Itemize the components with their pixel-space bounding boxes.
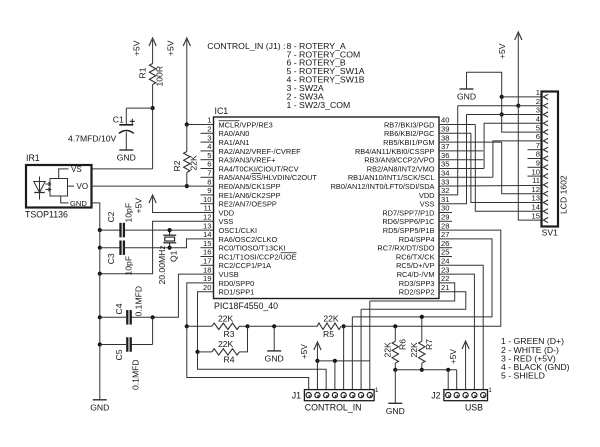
wire IC pin 28 RD5 to J1 row: [344, 230, 501, 326]
svg-text:RD7/SPP7/P1D: RD7/SPP7/P1D: [382, 208, 434, 217]
wire stub IC pin 9: [201, 194, 214, 196]
svg-text:C5: C5: [114, 349, 124, 360]
wire IC pin 34 RB1 to E col: [439, 176, 493, 178]
wire stub IC pin 6: [201, 168, 214, 170]
svg-text:14: 14: [203, 230, 211, 239]
svg-text:RA6/OSC2/CLKO: RA6/OSC2/CLKO: [219, 235, 278, 244]
svg-text:+5V: +5V: [132, 40, 142, 56]
svg-text:J2: J2: [431, 391, 440, 401]
svg-text:+5V: +5V: [300, 344, 309, 359]
wire GND col pin1 to pin3: [501, 97, 503, 115]
resistor R1: [149, 64, 155, 85]
svg-text:SV1: SV1: [542, 228, 558, 238]
svg-text:15: 15: [532, 211, 540, 220]
wire +5V row to VDD col: [458, 105, 519, 107]
resistor R5: [317, 323, 341, 329]
svg-text:VDD: VDD: [419, 191, 435, 200]
svg-text:1: 1: [375, 387, 379, 394]
svg-text:13: 13: [203, 221, 211, 230]
wire IC pin 21 RD2 to J1 pin2: [361, 292, 466, 310]
IC IC1 PIC18F4550_40 body: [214, 117, 440, 299]
wire J1 pin7 drop: [316, 361, 318, 390]
ground near LCD: [460, 88, 474, 90]
wire rail VSS tap to C4: [99, 274, 101, 318]
wire rail to C5: [100, 344, 128, 346]
wire C1 top lead: [125, 108, 127, 125]
wire C5 riser: [152, 317, 154, 344]
wire stub LCD pin 10: [528, 175, 542, 177]
svg-text:OSC1/CLKI: OSC1/CLKI: [219, 226, 258, 235]
wire C2 to crystal node: [124, 229, 170, 231]
wire R5 right lead: [343, 325, 346, 327]
node R3/R4 bus junction: [245, 324, 249, 328]
power +5V arrow (MCLR branch): [183, 38, 190, 46]
svg-text:33: 33: [441, 177, 449, 186]
svg-text:R1: R1: [138, 67, 148, 78]
wire stub LCD pin 8: [528, 158, 542, 160]
wire IC pin 35 RB2 to RS col: [439, 168, 484, 170]
wire IC pin 20 RD1 down to R4: [198, 292, 214, 352]
wire stub IC pin 29: [439, 220, 452, 222]
wire J2 pin5 drop: [447, 370, 449, 390]
svg-text:9: 9: [207, 186, 211, 195]
svg-text:C2: C2: [106, 211, 116, 222]
svg-text:CONTROL_IN: CONTROL_IN: [305, 403, 362, 413]
svg-text:TSOP1136: TSOP1136: [25, 210, 68, 220]
svg-text:26: 26: [441, 239, 449, 248]
svg-text:USB: USB: [465, 403, 483, 413]
node R1/C1/VS junction: [151, 106, 155, 110]
svg-text:RE0/AN5/CK1SPP: RE0/AN5/CK1SPP: [219, 182, 281, 191]
svg-text:30: 30: [441, 204, 449, 213]
capacitor C5 plates: [127, 337, 130, 352]
wire +5V down to pin 1 node: [186, 40, 188, 125]
node J1 +5V junction: [315, 359, 319, 363]
svg-text:IC1: IC1: [215, 106, 229, 116]
wire stub IC pin 10: [201, 203, 214, 205]
svg-text:5: 5: [536, 123, 540, 132]
ground mid-bottom: [267, 350, 281, 352]
svg-text:22K: 22K: [383, 342, 393, 358]
ground below R6: [388, 402, 402, 404]
wire R4 right riser to bus: [239, 326, 247, 352]
wire IC pin 18 VUSB down: [153, 274, 214, 317]
wire stub IC pin 16: [201, 256, 214, 258]
node R4 left junction: [195, 350, 199, 354]
svg-text:19: 19: [203, 274, 211, 283]
svg-text:1 - SW2/3_COM: 1 - SW2/3_COM: [287, 100, 351, 110]
svg-text:4.7MFD/10V: 4.7MFD/10V: [68, 134, 117, 144]
svg-text:RE1/AN6/CK2SPP: RE1/AN6/CK2SPP: [219, 191, 281, 200]
svg-text:RB6/KBI2/PGC: RB6/KBI2/PGC: [384, 129, 435, 138]
svg-text:RC4/D-/VM: RC4/D-/VM: [397, 270, 435, 279]
wire rail C5 to ground: [99, 345, 101, 400]
svg-text:4: 4: [207, 142, 211, 151]
wire bus to R5: [274, 325, 317, 327]
wire IC pin 39 RB6 to D6 col: [439, 132, 471, 134]
svg-text:RD3/SPP3: RD3/SPP3: [399, 279, 435, 288]
wire bus to GND tap: [248, 325, 275, 327]
svg-text:15: 15: [203, 239, 211, 248]
power +5V arrow (J2 branch): [462, 341, 469, 349]
svg-text:R7: R7: [424, 339, 434, 350]
svg-text:VSS: VSS: [219, 217, 234, 226]
wire node to IC pin 1: [187, 124, 214, 126]
wire stub IC pin 15: [201, 247, 214, 249]
svg-text:RB3/AN9/CCP2/VPO: RB3/AN9/CCP2/VPO: [364, 156, 434, 165]
svg-text:8: 8: [207, 177, 211, 186]
svg-text:32: 32: [441, 186, 449, 195]
wire stub IC pin 7: [201, 176, 214, 178]
wire IC pin 22 RD3 to J1 pin1: [370, 283, 455, 301]
svg-text:Q1: Q1: [168, 250, 178, 262]
wire stub IC pin 2: [201, 132, 214, 134]
power +5V arrow (J1 branch): [314, 342, 321, 350]
svg-text:J1: J1: [292, 391, 301, 401]
wire C4 right lead: [131, 316, 153, 318]
resistor R2: [184, 152, 190, 173]
wire R7 bottom lead: [421, 363, 423, 370]
svg-text:RE2/AN7/OESPP: RE2/AN7/OESPP: [219, 200, 277, 209]
svg-text:20: 20: [203, 283, 211, 292]
wire IC pin 33 RB0 to LCD pin 11: [439, 184, 542, 187]
svg-text:31: 31: [441, 195, 449, 204]
svg-text:RD2/SPP2: RD2/SPP2: [399, 288, 435, 297]
svg-text:C4: C4: [114, 303, 124, 314]
wire stub LCD pin 9: [528, 166, 542, 168]
wire IC pin 19 RD0 down to R3: [187, 283, 214, 326]
node R7 bottom junction: [420, 368, 424, 372]
svg-text:+5V: +5V: [134, 198, 144, 214]
wire +5V down to J1 pin7: [316, 344, 318, 361]
power +5V arrow (VDD branch): [149, 195, 156, 203]
resistor R7: [419, 341, 425, 363]
svg-text:RB4/AN11/KBI0/CSSPP: RB4/AN11/KBI0/CSSPP: [355, 147, 435, 156]
wire IC pin 37 RB4 wire: [439, 150, 483, 152]
svg-text:+5V: +5V: [166, 40, 176, 56]
connector J1 CONTROL_IN body: [304, 390, 374, 401]
wire LCD VO/VSS net to IC pin 31: [439, 115, 467, 204]
svg-text:39: 39: [441, 125, 449, 134]
node R6 bottom junction: [393, 368, 397, 372]
wire R3 left lead: [187, 325, 212, 327]
IR receiver IR1 box: [26, 165, 92, 208]
node R3 left junction: [185, 324, 189, 328]
wire node to R2: [186, 125, 188, 152]
svg-text:4: 4: [536, 115, 540, 124]
node rail/C2 junction: [98, 228, 102, 232]
svg-text:10pF: 10pF: [124, 203, 134, 223]
power +5V arrow (LCD branch): [515, 32, 522, 40]
connector SV1 LCD1602 body: [542, 92, 559, 227]
node R2/VO junction: [185, 184, 189, 188]
svg-text:12: 12: [203, 213, 211, 222]
svg-text:+5V: +5V: [449, 349, 458, 364]
wire crystal node to IC pin 13: [170, 229, 214, 231]
svg-text:0.1MFD: 0.1MFD: [131, 359, 141, 390]
svg-text:MCLR/VPP/RE3: MCLR/VPP/RE3: [219, 120, 273, 129]
svg-text:RA2/AN2/VREF-/CVREF: RA2/AN2/VREF-/CVREF: [219, 147, 302, 156]
connector SV1 female pin chevrons: [543, 94, 548, 222]
IR1 detector block: [50, 169, 74, 203]
wire +5V row on J1: [317, 360, 369, 362]
node rail/VSS junction: [98, 272, 102, 276]
wire IC pin 36 RB3 wire: [439, 159, 483, 161]
wire rail C3 to VSS tap: [99, 248, 101, 274]
node rail/C5 junction: [98, 342, 102, 346]
wire J1 pin2 riser: [360, 309, 362, 389]
svg-text:C3: C3: [106, 253, 116, 264]
svg-text:10: 10: [532, 167, 540, 176]
svg-text:16: 16: [203, 248, 211, 257]
wire R7 top lead: [421, 317, 423, 341]
wire D5 col down to LCD pin 12: [502, 142, 542, 194]
wire IC pin 27 RD4 to J1 pin3: [352, 239, 492, 317]
label C1 plus sign: [130, 119, 135, 124]
wire +5V down to J2 pin3: [465, 343, 467, 390]
svg-text:RD5/SPP5/P1B: RD5/SPP5/P1B: [383, 226, 435, 235]
svg-text:VSS: VSS: [420, 200, 435, 209]
wire R2 to VO node: [186, 173, 188, 187]
wire rail to C3: [100, 247, 121, 249]
svg-text:22K: 22K: [409, 342, 419, 358]
svg-text:1: 1: [488, 387, 492, 394]
svg-text:6: 6: [207, 160, 211, 169]
svg-text:RB2/AN8/INT2/VMO: RB2/AN8/INT2/VMO: [367, 164, 435, 173]
wire R1 to node: [152, 85, 154, 109]
wire E col up to LCD pin 6: [493, 141, 542, 177]
svg-text:RC5/D+/VP: RC5/D+/VP: [396, 261, 434, 270]
svg-text:28: 28: [441, 221, 449, 230]
svg-text:R5: R5: [323, 329, 334, 339]
wire rail to C4: [100, 316, 128, 318]
node rail/C4 junction: [98, 315, 102, 319]
svg-text:23: 23: [441, 265, 449, 274]
svg-text:11: 11: [204, 204, 212, 213]
svg-text:12: 12: [532, 185, 540, 194]
ground bottom-left rail: [93, 399, 107, 401]
wire LCD pin3 row: [467, 114, 542, 116]
node MCLR/+5V/R2 junction: [185, 122, 189, 126]
svg-text:RD0/SPP0: RD0/SPP0: [219, 279, 255, 288]
wire C5 right lead: [131, 344, 153, 346]
svg-text:13: 13: [532, 194, 540, 203]
svg-text:24: 24: [441, 257, 449, 266]
node rail/C3 junction: [98, 246, 102, 250]
svg-text:RD6/SPP6/P1C: RD6/SPP6/P1C: [382, 217, 435, 226]
wire stub IC pin 4: [201, 150, 214, 152]
svg-text:5: 5: [207, 151, 211, 160]
node LCD pin2 +5V junction: [516, 104, 520, 108]
svg-text:RA1/AN1: RA1/AN1: [219, 138, 250, 147]
svg-text:CONTROL_IN (J1) :: CONTROL_IN (J1) :: [207, 41, 285, 51]
wire IC pin 40 RB7 to D7 col: [439, 124, 475, 126]
wire C3 to crystal bottom node: [124, 247, 170, 249]
svg-text:1: 1: [207, 116, 211, 125]
node R7 top junction: [420, 315, 424, 319]
node LCD pin1 GND junction: [500, 95, 504, 99]
svg-text:27: 27: [441, 230, 449, 239]
svg-text:8: 8: [536, 150, 540, 159]
svg-text:GND: GND: [117, 153, 136, 163]
wire +5V col down to LCD pin 15: [518, 106, 541, 220]
wire J1 pin4 riser to bus: [343, 326, 345, 389]
svg-text:10pF: 10pF: [124, 256, 134, 276]
svg-text:PIC18F4550_40: PIC18F4550_40: [214, 301, 278, 311]
wire stub IC pin 26: [439, 247, 452, 249]
wire IC pin 23 RC4 D- to J2 pin2: [439, 274, 474, 390]
svg-text:10: 10: [203, 195, 211, 204]
wire GND drop below R6: [394, 370, 396, 404]
svg-text:RD4/SPP4: RD4/SPP4: [399, 235, 435, 244]
wire node to C1: [126, 107, 152, 109]
wire +5V col down to IC pin 32 VDD: [439, 106, 458, 195]
svg-text:29: 29: [441, 213, 449, 222]
node crystal top junction: [168, 228, 172, 232]
wire GND loop to LCD pin1 col: [467, 72, 502, 97]
svg-text:VDD: VDD: [219, 208, 235, 217]
wire crystal bottom to IC pin 14: [170, 239, 214, 248]
svg-text:6: 6: [536, 132, 540, 141]
svg-text:IR1: IR1: [26, 153, 40, 163]
node bus GND junction: [272, 324, 276, 328]
wire rail to C2: [100, 229, 121, 231]
svg-text:35: 35: [441, 160, 449, 169]
svg-text:37: 37: [441, 142, 449, 151]
svg-text:R4: R4: [224, 354, 235, 364]
wire stub LCD pin 7: [528, 149, 542, 151]
svg-text:RC7/RX/DT/SDO: RC7/RX/DT/SDO: [377, 244, 434, 253]
wire D7 col down to LCD pin 14: [475, 125, 541, 212]
svg-text:9: 9: [536, 159, 540, 168]
wire GND tap down: [273, 326, 275, 351]
svg-text:11: 11: [532, 176, 540, 185]
svg-text:22K: 22K: [189, 155, 199, 171]
svg-text:21: 21: [441, 283, 449, 292]
resistor R6: [392, 341, 398, 363]
svg-text:VUSB: VUSB: [219, 270, 239, 279]
wire R6 bottom lead: [394, 363, 396, 370]
resistor R3: [212, 323, 240, 329]
svg-text:22K: 22K: [323, 313, 339, 323]
svg-text:RB0/AN12/INT0/LFT0/SDI/SDA: RB0/AN12/INT0/LFT0/SDI/SDA: [331, 182, 435, 191]
node R5/RD5/SW1B junction: [342, 324, 346, 328]
power +5V arrow (R1 branch): [149, 38, 156, 46]
svg-text:40: 40: [441, 116, 449, 125]
wire IC pin 38 RB5 to D5 col: [439, 141, 502, 143]
svg-text:38: 38: [441, 133, 449, 142]
svg-text:C1: C1: [113, 114, 124, 124]
wire C1 to GND: [125, 132, 127, 150]
photodiode symbol inside IR1: [34, 177, 51, 200]
svg-text:RB7/BKI3/PGD: RB7/BKI3/PGD: [384, 120, 435, 129]
node crystal bottom junction: [168, 246, 172, 250]
svg-text:0.1MFD: 0.1MFD: [134, 286, 144, 317]
capacitor C2 plates: [121, 223, 124, 238]
wire R4 left lead: [198, 351, 212, 353]
svg-text:22K: 22K: [218, 313, 234, 323]
svg-text:RD1/SPP1: RD1/SPP1: [219, 288, 255, 297]
svg-text:RA4/T0CKI/CIOUT/RCV: RA4/T0CKI/CIOUT/RCV: [219, 164, 299, 173]
svg-text:20.00MHz: 20.00MHz: [157, 245, 167, 284]
wire J1 pin5 drop: [334, 361, 336, 390]
svg-text:17: 17: [203, 257, 211, 266]
svg-text:18: 18: [203, 265, 211, 274]
svg-text:+5V: +5V: [497, 43, 507, 59]
svg-text:22: 22: [441, 274, 449, 283]
svg-text:3: 3: [207, 133, 211, 142]
svg-text:7: 7: [536, 141, 540, 150]
wire +5V to IC pin 11: [153, 197, 214, 213]
node J2 shield GND junction: [446, 368, 450, 372]
wire R6 GND row: [395, 369, 456, 371]
svg-text:25: 25: [441, 248, 449, 257]
svg-text:7: 7: [207, 169, 211, 178]
svg-text:RA3/AN3/VREF+: RA3/AN3/VREF+: [219, 156, 276, 165]
svg-text:14: 14: [532, 203, 540, 212]
wire D6 col down to LCD pin 13: [471, 133, 542, 202]
wire rail C2 to C3: [99, 230, 101, 248]
svg-text:2: 2: [536, 97, 540, 106]
wire GND col pin3 to pin5: [502, 115, 542, 133]
svg-text:3: 3: [536, 106, 540, 115]
wire stub IC pin 3: [201, 141, 214, 143]
wire +5V to LCD pin 2: [518, 105, 541, 107]
svg-text:100R: 100R: [155, 66, 165, 87]
resistor R4: [212, 349, 240, 355]
wire J1 pin1 riser: [369, 301, 371, 390]
svg-text:36: 36: [441, 151, 449, 160]
wire stub IC pin 17: [201, 264, 214, 266]
wire J1 pin3 riser: [351, 317, 353, 390]
svg-text:R3: R3: [224, 329, 235, 339]
wire R6 top lead: [394, 326, 396, 341]
wire +5V down to LCD pin2: [517, 34, 519, 106]
wire to IR1 VS pin: [92, 168, 153, 170]
capacitor C3 plates: [121, 240, 124, 255]
svg-text:GND: GND: [265, 354, 284, 364]
wire +5V to R1: [152, 40, 154, 64]
svg-text:34: 34: [441, 169, 449, 178]
wire rail C4 to C5: [99, 317, 101, 344]
wire stub IC pin 30: [439, 212, 452, 214]
wire R3 right lead: [239, 325, 247, 327]
wire RD0 col down to ROTERY_A row: [187, 326, 309, 389]
svg-text:GND: GND: [457, 92, 476, 102]
wire stub IC pin 25: [439, 256, 452, 258]
node J1 SW1A +5V junction: [333, 359, 337, 363]
wire node down to VS row: [152, 108, 154, 169]
svg-text:LCD 1602: LCD 1602: [559, 175, 569, 214]
wire stub IC pin 5: [201, 159, 214, 161]
wire RS col up to LCD pin 4: [484, 123, 541, 168]
wire IC pin 24 RC5 D+ to J2 pin1: [439, 265, 483, 389]
svg-text:GND: GND: [90, 403, 109, 413]
svg-text:RA5/AN4/SS/HLVDIN/C2OUT: RA5/AN4/SS/HLVDIN/C2OUT: [219, 173, 318, 182]
ground below C1: [119, 149, 133, 151]
svg-text:1: 1: [536, 88, 540, 97]
svg-text:R6: R6: [397, 339, 407, 350]
svg-text:RC2/CCP1/P1A: RC2/CCP1/P1A: [219, 261, 272, 270]
crystal Q1 20.00MHz: [163, 230, 176, 248]
svg-text:GND: GND: [386, 406, 405, 416]
svg-text:RC1/T1OSI/CCP2/UOE: RC1/T1OSI/CCP2/UOE: [219, 252, 297, 261]
svg-text:VO: VO: [77, 182, 89, 191]
node LCD pin3 GND junction: [500, 112, 504, 116]
svg-text:RA0/AN0: RA0/AN0: [219, 129, 250, 138]
wire IR1 VO to IC pin 8: [92, 185, 214, 187]
svg-text:2: 2: [207, 125, 211, 134]
